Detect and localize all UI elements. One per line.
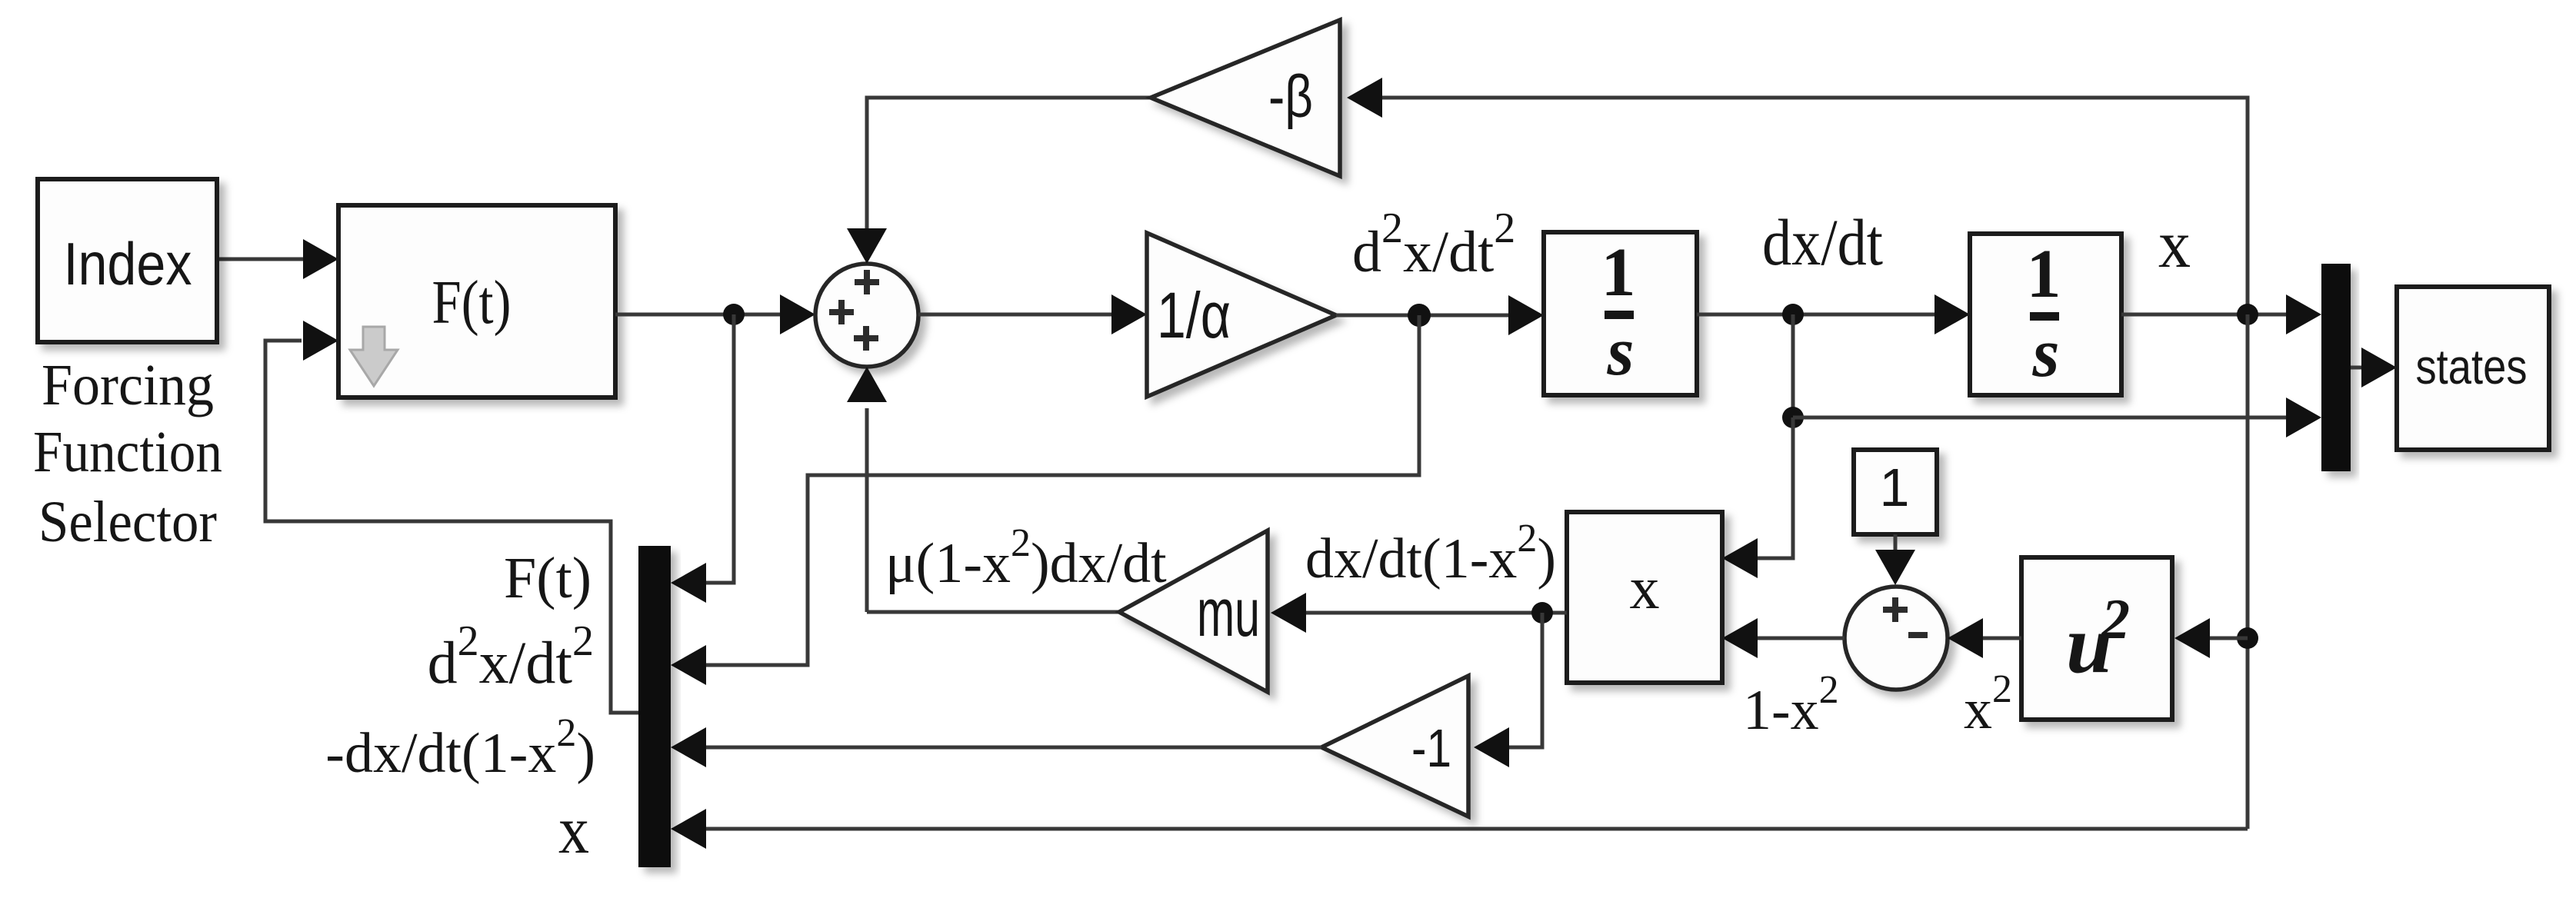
node F(t) output junction <box>723 304 745 325</box>
wire Integrator1 output to Integrator2 <box>1697 313 1936 317</box>
wire u2 output to Sum2 right input <box>1983 637 2021 640</box>
arrowhead into Integrator2 <box>1934 294 1970 334</box>
sign - right of Sum2 <box>1908 632 1928 638</box>
gain 1/alpha triangle <box>1147 233 1336 397</box>
svg-text:Forcing: Forcing <box>42 353 214 417</box>
arrowhead into bottom mux input 1 <box>671 563 706 603</box>
wire mu corner up to Sum1 bottom <box>865 408 869 612</box>
arrowhead into -beta input <box>1347 78 1382 118</box>
arrowhead into Integrator1 <box>1508 295 1544 335</box>
arrowhead into Sum2 right <box>1948 618 1983 658</box>
enable-port gray arrow icon <box>350 327 398 386</box>
svg-text:1-x2: 1-x2 <box>1743 668 1839 742</box>
block F(t) Forcing Function subsystem <box>338 205 615 397</box>
arrowhead into F(t) port 1 <box>303 239 338 279</box>
wire product junction down to -1 gain <box>1509 613 1542 747</box>
arrowhead into product input 1 <box>1722 538 1758 578</box>
wire Sum1 output to 1/alpha gain <box>918 313 1113 317</box>
arrowhead into 1/alpha <box>1111 294 1147 334</box>
svg-text:x: x <box>558 793 589 868</box>
arrowhead into bottom mux input 3 <box>671 727 706 767</box>
wire dx/dt down to lower junction <box>1791 314 1795 417</box>
gain -1 triangle (left pointing) <box>1321 676 1468 817</box>
arrowhead into mu gain <box>1271 593 1306 633</box>
arrowhead into Sum1 left <box>780 294 815 334</box>
sum Sum1 (+++) <box>815 264 918 367</box>
arrowhead into product input 2 <box>1722 618 1758 658</box>
node d2x/dt2 junction <box>1408 304 1431 327</box>
svg-text:x: x <box>1630 554 1660 621</box>
svg-text:-dx/dt(1-x2): -dx/dt(1-x2) <box>325 711 595 785</box>
wire F(t) junction down to bottom mux input 1 <box>701 314 734 583</box>
arrowhead into Sum1 bottom <box>847 367 887 402</box>
arrowhead into Sum2 top <box>1875 550 1915 585</box>
svg-text:dx/dt(1-x2): dx/dt(1-x2) <box>1305 517 1556 590</box>
block constant 1 <box>1854 450 1937 534</box>
svg-text:d2x/dt2: d2x/dt2 <box>1352 205 1515 284</box>
wire F(t) output to Sum1 <box>615 313 780 317</box>
wire 1/alpha output to Integrator1 <box>1336 314 1510 318</box>
svg-text:x: x <box>2158 208 2191 282</box>
svg-text:1: 1 <box>1601 234 1636 311</box>
node x junction <box>2237 304 2258 325</box>
wire mu output to Sum1 bottom corner <box>867 610 1119 614</box>
wire -beta output to Sum1 top <box>867 98 1151 230</box>
sign + left of Sum1 <box>829 300 854 324</box>
sum Sum2 (+-) <box>1845 587 1948 690</box>
wire constant 1 to Sum2 <box>1894 534 1898 551</box>
wire right mux output to states <box>2351 366 2363 370</box>
arrowhead into bottom mux input 4 <box>671 809 706 849</box>
wire x feedback top: from x junction up and left to -beta <box>1382 98 2248 314</box>
gain mu triangle (left pointing) <box>1119 530 1268 692</box>
wire x long bottom run to bottom mux input 4 <box>701 827 2248 831</box>
wire x down to u2 branch <box>2246 314 2250 829</box>
svg-text:F(t): F(t) <box>504 546 592 610</box>
block product x <box>1567 512 1722 683</box>
svg-text:s: s <box>2031 315 2059 391</box>
arrowhead into u2 input <box>2174 618 2210 658</box>
node dx/dt junction lower <box>1782 407 1804 428</box>
arrowhead into Sum1 top <box>847 228 887 264</box>
wire dx/dt down to product input 1 <box>1758 417 1793 558</box>
node product output junction <box>1531 602 1553 624</box>
svg-text:x2: x2 <box>1964 667 2012 741</box>
arrowhead into bottom mux input 2 <box>671 645 706 685</box>
block Integrator1 1/s <box>1544 232 1697 395</box>
svg-text:F(t): F(t) <box>432 269 512 337</box>
label mu(1-x2)dx/dt with white background <box>874 504 1166 609</box>
arrowhead into right mux input 1 <box>2286 294 2321 334</box>
block u2 (square) <box>2021 557 2172 720</box>
sign + bottom of Sum1 <box>854 326 878 351</box>
sign + top of Sum1 <box>855 270 879 294</box>
wire dx/dt to right mux input 2 <box>1793 416 2288 420</box>
arrowhead into F(t) port 2 <box>303 321 338 361</box>
gain -beta triangle (left pointing) <box>1151 20 1340 176</box>
node x to u2 junction <box>2237 627 2258 649</box>
mux bottom (selector mux) <box>638 546 671 867</box>
block states (To Workspace) <box>2397 287 2549 450</box>
wire product output left to mu gain <box>1306 611 1567 615</box>
sign + top of Sum2 <box>1883 597 1908 622</box>
svg-text:Function: Function <box>33 420 222 484</box>
block Index (constant) <box>38 179 217 342</box>
arrowhead into states <box>2361 348 2397 387</box>
svg-text:1: 1 <box>2027 236 2061 312</box>
svg-text:1: 1 <box>1880 457 1910 517</box>
arrowhead into -1 gain <box>1474 727 1509 767</box>
wire x junction into u2 input <box>2210 637 2248 640</box>
wire mux output to F(t) input 2 <box>265 341 638 713</box>
svg-text:1/α: 1/α <box>1157 279 1231 351</box>
wire d2x/dt2 feedback down-left to bottom mux input 2 <box>701 315 1419 665</box>
block Integrator2 1/s <box>1970 234 2121 395</box>
wire -1 output to bottom mux input 3 <box>701 746 1321 750</box>
arrowhead into right mux input 2 <box>2286 397 2321 437</box>
wire Sum2 output to product input 2 <box>1758 637 1845 640</box>
svg-text:dx/dt: dx/dt <box>1762 205 1883 279</box>
wire Integrator2 output to right mux input 1 <box>2121 313 2288 317</box>
svg-text:s: s <box>1606 314 1634 390</box>
node dx/dt junction upper <box>1782 304 1804 325</box>
svg-text:d2x/dt2: d2x/dt2 <box>428 617 594 696</box>
svg-text:-1: -1 <box>1411 718 1451 778</box>
svg-text:Selector: Selector <box>38 490 217 554</box>
svg-text:mu: mu <box>1197 574 1260 650</box>
svg-text:2: 2 <box>2101 588 2130 651</box>
svg-text:Index: Index <box>64 230 192 298</box>
svg-text:states: states <box>2416 339 2528 394</box>
svg-text:-β: -β <box>1268 62 1313 130</box>
mux right (states mux) <box>2321 264 2351 471</box>
wire Index to F(t) input 1 <box>217 258 308 261</box>
